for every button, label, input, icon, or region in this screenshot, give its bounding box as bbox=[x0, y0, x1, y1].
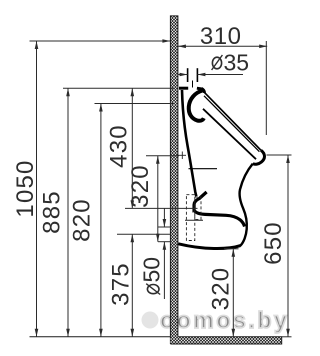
arrow 320mid top bbox=[156, 156, 160, 164]
svg-text:50: 50 bbox=[139, 257, 165, 283]
svg-text:35: 35 bbox=[224, 50, 250, 76]
label o50 bbox=[139, 257, 165, 295]
svg-text:320: 320 bbox=[127, 164, 154, 208]
arrow 820 top bbox=[99, 104, 103, 112]
inner bowl back wall bbox=[182, 90, 196, 196]
outlet stub lower line bbox=[185, 219, 203, 221]
arrow o35 right bbox=[197, 73, 205, 77]
flush pipe tick right bbox=[196, 68, 198, 82]
arrow 320mid bottom bbox=[156, 234, 160, 242]
arrow 1050 bottom bbox=[35, 329, 39, 337]
arrow 375 top bbox=[131, 234, 135, 242]
svg-text:650: 650 bbox=[260, 221, 287, 265]
trap hook (outlet lip) bbox=[194, 192, 245, 227]
dim line 320 middle bbox=[157, 156, 159, 242]
urinal front rim bottom line bbox=[203, 109, 256, 159]
far rim inner edge line bbox=[189, 168, 218, 170]
svg-text:820: 820 bbox=[69, 198, 96, 242]
flush pipe tick left bbox=[187, 68, 189, 82]
arrow 430 top bbox=[131, 88, 135, 96]
dim line 430 bbox=[131, 88, 133, 208]
fixing hole cross lower / vertical bbox=[192, 205, 194, 213]
fixing hole cross upper bbox=[179, 152, 187, 160]
outlet lip level line (430 bottom) bbox=[125, 207, 198, 209]
dim line 885 bbox=[67, 88, 69, 336]
spreader hump (inlet pocket) bbox=[189, 91, 204, 121]
urinal bottom edge bbox=[178, 244, 240, 249]
extension 650 bottom bbox=[282, 336, 292, 338]
arrow o50 lower bbox=[163, 242, 167, 250]
bowl front inner curve bbox=[240, 164, 253, 246]
arrow 310 left bbox=[178, 45, 186, 49]
leader line o50 bbox=[163, 208, 165, 227]
arrow 650 bottom bbox=[286, 329, 290, 337]
extension line right of 310 bbox=[265, 41, 267, 135]
arrow 820 bottom bbox=[99, 329, 103, 337]
arrow 430 bottom bbox=[131, 200, 135, 208]
arrowheads bbox=[35, 39, 290, 337]
svg-text:310: 310 bbox=[200, 23, 242, 50]
extension 320 bottom top bbox=[224, 248, 239, 250]
arrow 320b bottom bbox=[232, 329, 236, 337]
arrow 1050 top bbox=[35, 41, 39, 49]
wall (hatched bar) bbox=[170, 16, 178, 344]
fixing hole level line bbox=[146, 155, 179, 157]
outlet pipe bottom edge bbox=[158, 241, 171, 243]
level line 885 (urinal top) bbox=[63, 87, 174, 89]
dim line 1050 bbox=[36, 41, 38, 337]
arrow o35 left bbox=[180, 73, 188, 77]
svg-text:1050: 1050 bbox=[12, 159, 39, 217]
arrow 310 right bbox=[259, 45, 267, 49]
dim line 310 bbox=[178, 45, 267, 47]
dim line 320 bottom bbox=[232, 249, 234, 337]
arrow 320b top bbox=[232, 249, 236, 257]
urinal front rim second line bbox=[204, 96, 259, 152]
arrow 375 bottom bbox=[131, 329, 135, 337]
level line 820 (spreader) bbox=[95, 103, 175, 105]
floor line (left of wall) bbox=[30, 336, 171, 338]
urinal top edge with inlet slot bbox=[179, 87, 202, 91]
level line 1050 (supply height) bbox=[30, 40, 171, 42]
urinal front rim outer line bbox=[204, 92, 261, 150]
dim line 650 bbox=[287, 155, 289, 337]
arrow 650 top bbox=[286, 155, 290, 163]
arrow 1050 wall bbox=[162, 39, 170, 43]
svg-text:885: 885 bbox=[39, 190, 66, 234]
dim line 820 bbox=[100, 104, 102, 337]
svg-text:430: 430 bbox=[105, 124, 132, 168]
svg-text:375: 375 bbox=[107, 262, 134, 306]
flush pipe centerline bbox=[192, 81, 194, 88]
label o35 bbox=[212, 50, 249, 76]
extension 650 top bbox=[267, 154, 292, 156]
arrow 885 bottom bbox=[66, 329, 70, 337]
arrow 885 top bbox=[66, 88, 70, 96]
dim line o35 left bbox=[178, 74, 187, 76]
watermark zoomos.by bbox=[142, 307, 290, 333]
urinal rim tip curl bbox=[253, 150, 265, 164]
mounting bracket dashed box bbox=[186, 195, 201, 241]
floor slab (hatched) bbox=[170, 337, 281, 344]
outlet center line 375 bbox=[117, 233, 171, 235]
outlet pipe top edge bbox=[158, 226, 171, 228]
svg-text:320: 320 bbox=[207, 267, 234, 311]
dim line o35 right leader bbox=[197, 74, 243, 76]
arrow o50 upper bbox=[163, 219, 167, 227]
dim line 375 bbox=[131, 234, 133, 337]
urinal top-right corner junction bbox=[202, 89, 205, 93]
